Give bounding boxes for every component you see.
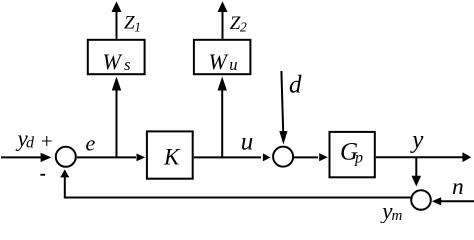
svg-text:W: W	[103, 49, 123, 74]
svg-text:m: m	[392, 208, 403, 223]
svg-text:+: +	[40, 129, 54, 153]
svg-text:2: 2	[240, 20, 247, 35]
svg-text:y: y	[409, 127, 424, 154]
svg-text:W: W	[209, 49, 229, 74]
svg-text:d: d	[289, 72, 302, 99]
svg-text:K: K	[163, 144, 181, 169]
svg-text:s: s	[124, 55, 131, 74]
svg-text:1: 1	[134, 19, 141, 34]
svg-text:u: u	[241, 128, 254, 155]
svg-text:e: e	[86, 131, 96, 156]
svg-text:p: p	[354, 149, 363, 166]
svg-text:u: u	[229, 55, 237, 74]
svg-text:n: n	[452, 174, 464, 200]
svg-text:d: d	[26, 134, 35, 151]
